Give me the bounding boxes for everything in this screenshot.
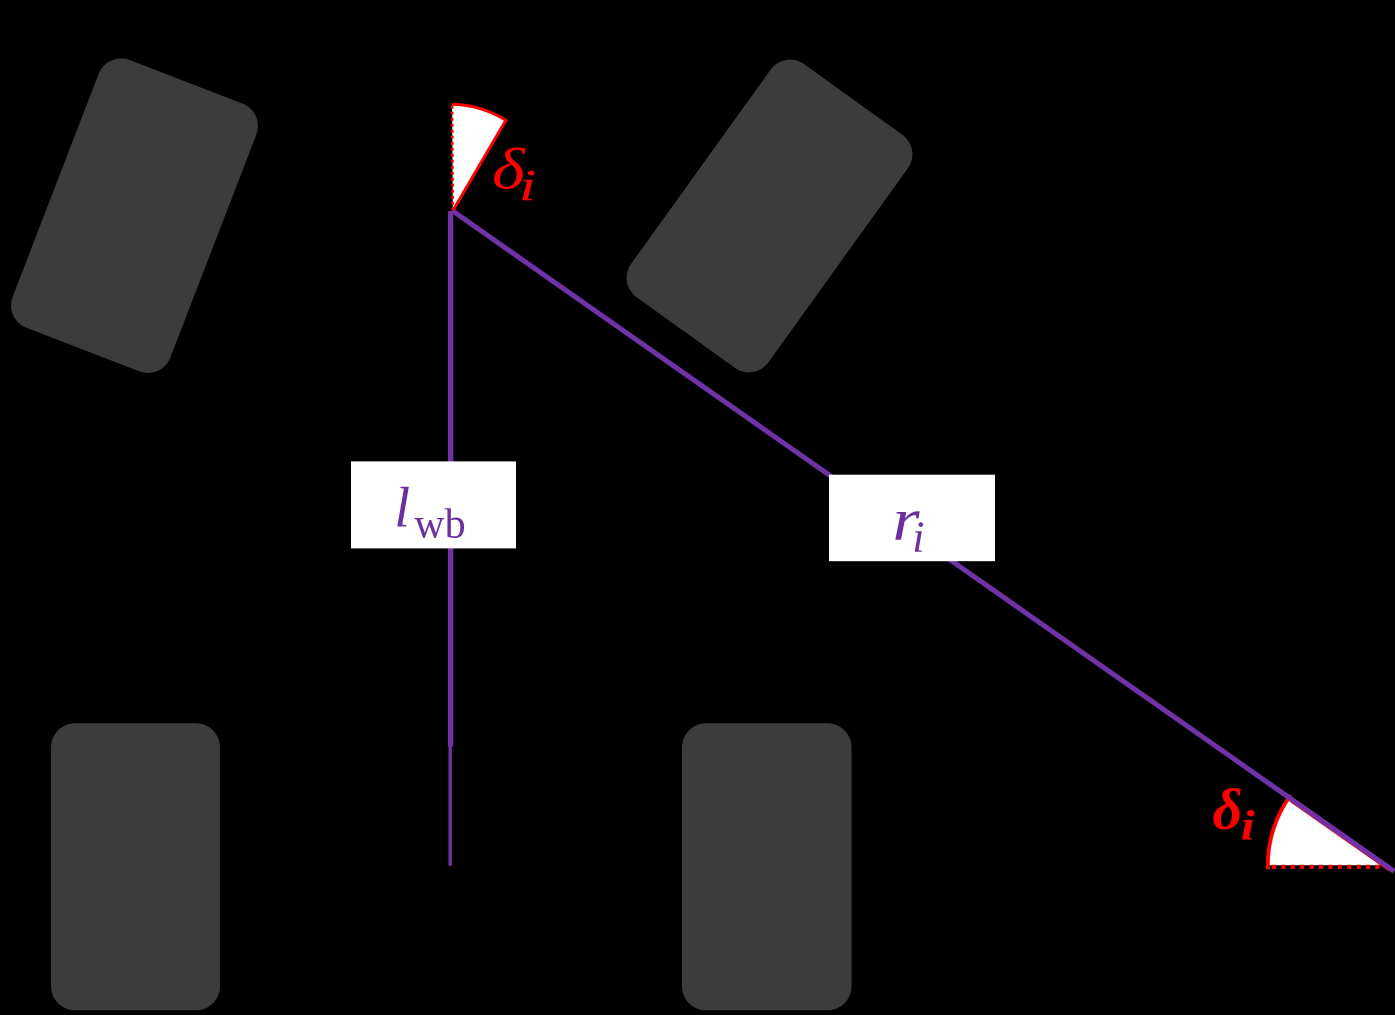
svg-text:wb: wb (414, 501, 465, 547)
svg-text:i: i (912, 513, 924, 562)
svg-text:i: i (519, 161, 537, 210)
svg-text:i: i (1241, 803, 1255, 849)
svg-text:l: l (394, 477, 410, 540)
svg-text:δ: δ (1213, 777, 1243, 842)
